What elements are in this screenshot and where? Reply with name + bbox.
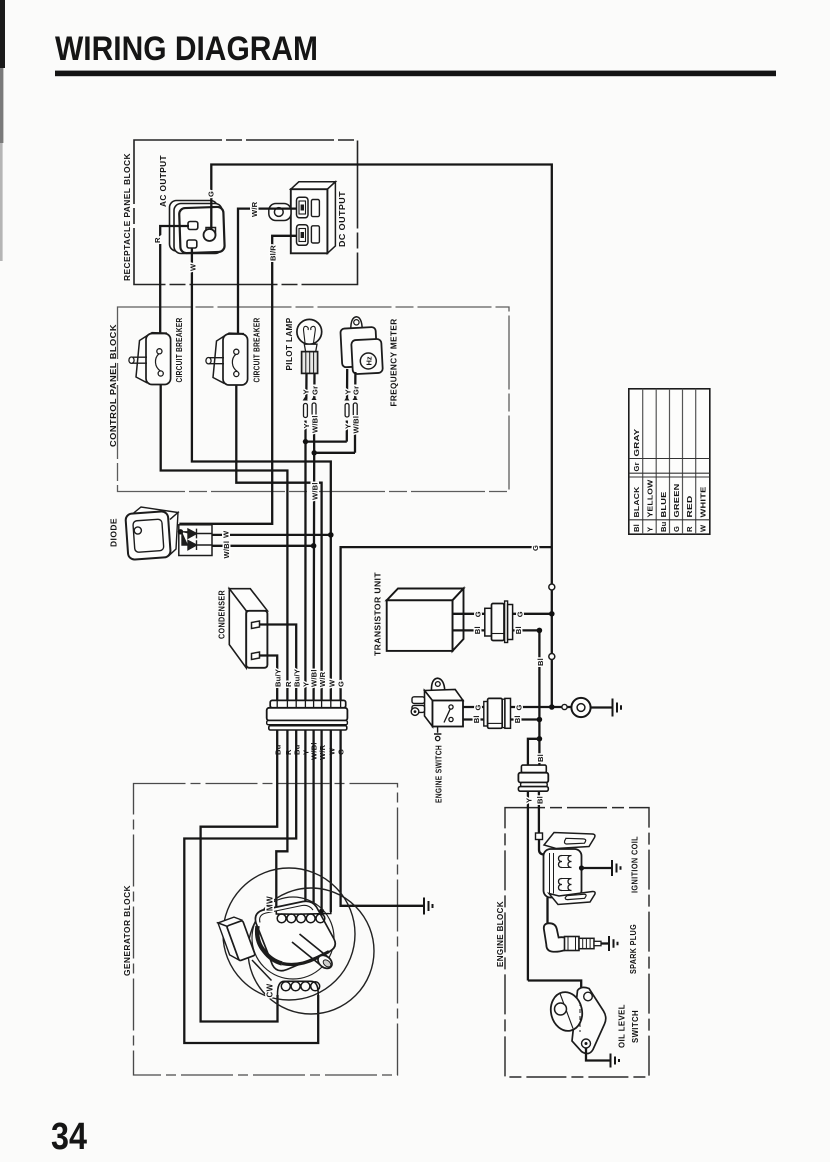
svg-text:Bl: Bl <box>473 626 482 634</box>
svg-text:W: W <box>328 747 337 755</box>
generator stator circle 1 <box>223 868 355 1000</box>
wire Y below bullet <box>527 791 529 980</box>
wire R : AC receptacle to circuit breaker 1 <box>160 226 189 349</box>
svg-text:W: W <box>328 679 337 687</box>
circuit breaker CB1 <box>129 333 171 385</box>
svg-text:Bu/Y: Bu/Y <box>274 669 283 687</box>
diode D2 <box>182 532 212 550</box>
svg-text:RECEPTACLE PANEL BLOCK: RECEPTACLE PANEL BLOCK <box>123 153 132 281</box>
condenser body <box>229 589 267 668</box>
svg-text:DIODE: DIODE <box>110 518 119 547</box>
engine block border <box>505 808 649 1077</box>
oil level switch plate <box>572 987 606 1053</box>
legend outer border <box>629 389 710 534</box>
wire G rail to connector <box>341 547 552 700</box>
svg-text:G: G <box>672 526 681 532</box>
svg-text:Bl: Bl <box>536 658 545 666</box>
ignition coil windings <box>559 856 572 891</box>
ground symbol (right of ring terminal) <box>613 699 622 717</box>
ground symbol (oil level switch) <box>611 1054 620 1068</box>
connector bead on G wire <box>562 704 567 709</box>
wire Bl transistor to connector <box>453 629 485 631</box>
transistor unit box <box>387 589 464 651</box>
node W/diode junction <box>328 532 334 538</box>
wire W/Bl : diode to W/Bl rail <box>212 545 314 547</box>
spark plug body <box>565 937 580 951</box>
freq inline connector left <box>344 397 349 401</box>
svg-text:TRANSISTOR UNIT: TRANSISTOR UNIT <box>374 572 383 656</box>
svg-text:Bl/R: Bl/R <box>269 245 278 261</box>
legend row lines <box>629 459 710 520</box>
svg-text:OIL LEVEL: OIL LEVEL <box>618 1004 627 1048</box>
connector pin ticks <box>277 700 340 707</box>
ignition coil bracket bottom <box>549 891 595 904</box>
svg-text:CONTROL PANEL BLOCK: CONTROL PANEL BLOCK <box>109 324 118 447</box>
svg-text:WIRING DIAGRAM: WIRING DIAGRAM <box>55 30 318 68</box>
ignition coil body <box>544 849 582 898</box>
svg-text:G: G <box>515 704 524 710</box>
connector pin labels bottom <box>274 742 346 760</box>
wire G : AC output to right rail <box>211 165 552 708</box>
wire Bu/Y condenser bottom to connector <box>260 656 278 701</box>
wire W/R lower : breaker 2 to connector <box>236 376 321 700</box>
spark plug boot <box>544 923 566 952</box>
svg-text:MW: MW <box>266 896 275 911</box>
svg-text:Bl: Bl <box>536 796 545 804</box>
wire Bu : connector to CW coil left <box>201 730 278 1022</box>
wire Bl switch to connector <box>463 718 484 720</box>
wire G switch to connector <box>463 706 484 708</box>
diode D1 <box>181 529 213 539</box>
circuit breaker CB2 <box>206 333 248 385</box>
svg-text:Bl: Bl <box>632 524 641 532</box>
svg-text:AC OUTPUT: AC OUTPUT <box>159 155 168 207</box>
wire W : diode to W rail <box>212 534 331 536</box>
wire Bl connector to Bl rail <box>511 718 540 720</box>
svg-text:CIRCUIT BREAKER: CIRCUIT BREAKER <box>253 318 262 383</box>
engine switch connector pair <box>484 698 511 728</box>
svg-text:Bl: Bl <box>514 626 523 634</box>
bullet connector (engine harness) <box>518 765 548 791</box>
svg-text:Y: Y <box>302 389 311 394</box>
wire Bu/Y condenser top to connector <box>260 625 297 701</box>
svg-text:34: 34 <box>51 1116 87 1158</box>
svg-text:Gr: Gr <box>351 386 360 395</box>
wire ring terminal to ground <box>591 706 613 708</box>
ground symbol (spark plug) <box>609 936 618 951</box>
CW coil (charge winding) <box>277 981 319 995</box>
node Bl junction <box>537 717 543 723</box>
svg-text:G: G <box>515 611 524 617</box>
connector pin labels top <box>274 669 346 687</box>
wire Bl into ignition coil terminal <box>536 833 543 840</box>
svg-text:W: W <box>699 524 708 532</box>
svg-text:Gr: Gr <box>632 462 641 471</box>
node tap W/Bl <box>311 909 316 914</box>
wire R : connector to MW coil left <box>276 730 287 914</box>
frequency meter <box>340 317 383 375</box>
ground symbol (generator frame) <box>424 898 433 915</box>
rotor shaft <box>292 934 335 971</box>
svg-text:CIRCUIT BREAKER: CIRCUIT BREAKER <box>175 318 184 383</box>
svg-text:ENGINE SWITCH: ENGINE SWITCH <box>435 745 444 803</box>
node Bl branch <box>537 736 543 742</box>
svg-text:W/Bl: W/Bl <box>311 415 320 433</box>
svg-text:FREQUENCY METER: FREQUENCY METER <box>390 319 399 407</box>
svg-text:R: R <box>284 681 293 687</box>
svg-text:DC OUTPUT: DC OUTPUT <box>338 191 347 247</box>
pilot inline connector left <box>303 397 308 401</box>
ring terminal <box>571 698 590 717</box>
generator inner circle <box>252 897 334 979</box>
generator stator circle 2 <box>248 888 374 1014</box>
wire G : connector to frame ground <box>341 730 424 906</box>
ground symbol (ignition coil) <box>612 860 621 876</box>
wire Bl below bullet <box>538 791 540 836</box>
svg-text:CW: CW <box>266 983 275 997</box>
wire oil switch to ground <box>586 1048 610 1061</box>
spark plug lead <box>546 898 548 927</box>
svg-text:Bl: Bl <box>472 715 481 723</box>
wire W/R : connector to MW tap 3 <box>320 730 322 912</box>
svg-text:G: G <box>531 545 540 551</box>
pilot lamp leads <box>306 374 315 453</box>
pilot inline connector right <box>311 396 316 400</box>
svg-text:IGNITION COIL: IGNITION COIL <box>631 836 640 893</box>
svg-text:SPARK PLUG: SPARK PLUG <box>629 924 638 974</box>
svg-text:R: R <box>153 237 162 243</box>
wire Bu/Y 2 : connector to CW coil right <box>184 730 318 1043</box>
node W/Bl diode junction <box>311 543 317 549</box>
engine switch mount stub <box>434 727 441 735</box>
svg-text:R: R <box>685 526 694 532</box>
svg-text:CONDENSER: CONDENSER <box>218 590 227 639</box>
oil switch plate dashed line <box>579 1002 581 1032</box>
node ignition ground <box>579 865 584 870</box>
wire Y join pilot/freq <box>305 442 346 700</box>
rotor plate <box>255 901 335 971</box>
svg-text:W: W <box>188 263 197 271</box>
svg-text:G: G <box>337 681 346 687</box>
wire W : connector to MW coil right <box>330 730 332 912</box>
svg-text:Bl: Bl <box>536 754 545 762</box>
node W/Bl junction <box>312 450 317 455</box>
ignition coil bracket top <box>544 833 595 849</box>
svg-text:W/R: W/R <box>318 671 327 687</box>
node G junction on rail <box>549 611 555 617</box>
pilot lamp <box>297 319 322 373</box>
oil level switch canister <box>547 989 585 1034</box>
frequency meter leads <box>347 369 356 453</box>
node tap W/R <box>319 909 324 914</box>
svg-text:W/Bl: W/Bl <box>352 416 361 434</box>
svg-text:BLACK: BLACK <box>632 486 641 517</box>
connector body <box>267 700 348 730</box>
wire Bl connector, turns down <box>513 630 540 765</box>
svg-text:W/Bl: W/Bl <box>222 541 231 559</box>
node tap Y <box>303 909 308 914</box>
control panel block border <box>118 307 510 492</box>
svg-text:W/Bl: W/Bl <box>310 482 319 500</box>
wire W/R : DC output to circuit breaker 2 <box>238 209 297 349</box>
receptacle panel block border <box>134 140 358 285</box>
wire Bl/R : DC output to diode <box>181 236 297 531</box>
svg-text:Hz: Hz <box>365 356 374 365</box>
svg-text:GENERATOR BLOCK: GENERATOR BLOCK <box>123 885 132 976</box>
svg-text:YELLOW: YELLOW <box>646 479 655 518</box>
svg-text:Y: Y <box>302 423 311 428</box>
svg-text:ENGINE BLOCK: ENGINE BLOCK <box>496 901 505 967</box>
svg-text:PILOT LAMP: PILOT LAMP <box>285 317 294 370</box>
svg-text:Bu: Bu <box>659 521 668 532</box>
wire G connector to ring terminal <box>511 706 572 708</box>
wire W : AC receptacle down <box>192 248 331 700</box>
engine switch body <box>411 678 463 726</box>
brush block <box>218 915 255 964</box>
svg-text:W: W <box>222 530 231 538</box>
svg-text:G: G <box>207 191 216 197</box>
wire G connector to rail <box>513 613 552 615</box>
wire W/Bl : connector to MW tap 2 <box>312 730 314 912</box>
svg-text:Y: Y <box>646 527 655 532</box>
svg-text:GRAY: GRAY <box>632 429 641 457</box>
svg-text:Bl: Bl <box>513 715 522 723</box>
wire R lower : breaker 1 to connector <box>161 376 288 700</box>
svg-text:Bu/Y: Bu/Y <box>293 669 302 687</box>
AC output receptacle <box>170 201 225 254</box>
svg-text:Gr: Gr <box>310 386 319 395</box>
diode housing <box>125 507 178 560</box>
wire Bl branch to bullet connector <box>528 739 540 766</box>
svg-text:GREEN: GREEN <box>672 484 681 518</box>
svg-text:G: G <box>473 611 482 617</box>
wire G transistor to connector <box>453 613 485 615</box>
svg-text:Y: Y <box>525 798 534 803</box>
svg-text:BLUE: BLUE <box>659 492 668 518</box>
wire W/Bl join pilot/freq <box>314 453 355 700</box>
MW coil (main winding) <box>276 911 331 923</box>
transistor connector pair <box>485 601 513 643</box>
legend column lines <box>643 389 696 534</box>
wire Y : connector to MW tap 1 <box>304 730 306 912</box>
generator block border <box>134 784 398 1076</box>
svg-text:WHITE: WHITE <box>699 487 708 518</box>
freq inline connector right <box>353 396 358 400</box>
svg-text:W/R: W/R <box>250 201 259 217</box>
wire Y to oil level switch <box>528 981 581 990</box>
title rule <box>55 71 776 77</box>
node Y junction <box>303 439 308 444</box>
diode rectifier box <box>179 525 212 556</box>
connector circles on G rail <box>549 584 555 590</box>
svg-text:SWITCH: SWITCH <box>631 1010 640 1043</box>
wire ignition coil to ground <box>582 867 612 869</box>
left margin scan bar <box>0 0 5 68</box>
brush lead <box>252 960 272 981</box>
node Bl corner <box>537 628 543 634</box>
node G junction engine switch <box>549 704 555 710</box>
svg-text:G: G <box>474 704 483 710</box>
svg-text:RED: RED <box>685 495 694 517</box>
DC output block <box>269 182 336 254</box>
node Bl/R to diode <box>178 529 183 534</box>
